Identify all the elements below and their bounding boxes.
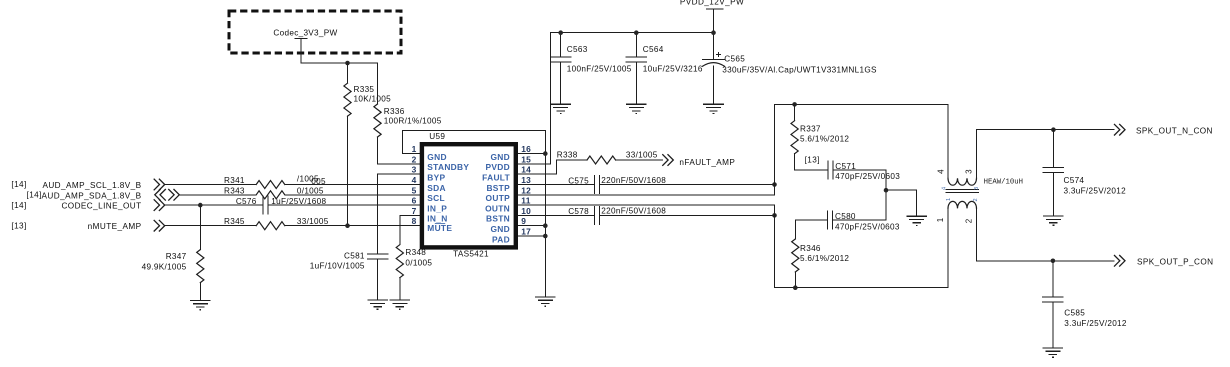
node pin17 GND junction [543,234,548,239]
node C564 [634,30,639,35]
svg-text:C580: C580 [835,212,856,221]
svg-text:C563: C563 [567,45,588,54]
node C574 tap [1051,127,1056,132]
port SPK_OUT_P_CON [1114,255,1213,267]
wire pin9 stub [518,225,545,227]
svg-text:9: 9 [521,216,526,226]
svg-text:330uF/35V/Al.Cap/UWT1V331MNL1G: 330uF/35V/Al.Cap/UWT1V331MNL1GS [722,65,877,74]
capacitor C576 [236,196,327,214]
wire SPK_OUT_P line [977,260,1115,262]
svg-text:15: 15 [521,154,531,164]
capacitor C575 [568,176,666,194]
resistor R343 [224,187,324,199]
svg-text:GND: GND [490,152,510,162]
node C585 tap [1051,259,1056,264]
node R346 bottom [793,285,798,290]
svg-text:R337: R337 [800,125,821,134]
svg-text:STANDBY: STANDBY [427,162,469,172]
svg-text:12: 12 [521,185,531,195]
svg-text:11: 11 [521,196,530,206]
svg-text:R336: R336 [384,107,405,116]
svg-text:PVDD: PVDD [486,162,510,172]
resistor R346 [792,220,850,288]
wire to snubber ground [886,190,917,216]
node R335 pull-up to nMUTE [345,223,350,228]
svg-text:R347: R347 [166,252,187,261]
wire IN_N to R348 [400,215,420,299]
ground C564 [626,104,647,113]
svg-text:HEAW/10uH: HEAW/10uH [984,179,1023,187]
svg-text:49.9K/1005: 49.9K/1005 [142,262,187,271]
wire SPK_OUT_N line [977,129,1115,131]
svg-text:R346: R346 [800,244,821,253]
svg-text:1uF/25V/1608: 1uF/25V/1608 [271,197,326,206]
U59 left pin names [427,152,469,233]
port nMUTE_AMP [11,220,164,232]
port nFAULT_AMP [662,154,735,167]
svg-text:C575: C575 [568,177,589,186]
svg-text:C564: C564 [643,45,664,54]
svg-text:8: 8 [412,216,417,226]
wire row nMUTE [165,225,420,227]
svg-text:SDA: SDA [427,183,446,193]
wire pin17 stub [518,235,545,237]
resistor R338 [557,150,658,164]
ground R348 [390,300,411,309]
node pin9 GND junction [543,223,548,228]
svg-text:4: 4 [941,187,947,190]
svg-text:3.3uF/25V/2012: 3.3uF/25V/2012 [1064,186,1127,195]
capacitor C563 [551,33,632,104]
svg-text:6: 6 [412,196,417,206]
svg-text:7: 7 [412,206,417,216]
node BSTP junction [772,182,777,187]
node C563 [558,30,563,35]
svg-text:2: 2 [973,198,979,201]
svg-text:100nF/25V/1005: 100nF/25V/1005 [567,65,632,74]
svg-text:13: 13 [521,175,531,185]
ground U59 GND [535,297,556,306]
svg-text:nFAULT_AMP: nFAULT_AMP [679,158,735,167]
svg-text:3: 3 [974,187,980,190]
svg-text:17: 17 [521,227,531,237]
svg-text:Codec_3V3_PW: Codec_3V3_PW [273,28,337,37]
svg-text:C581: C581 [344,251,365,260]
capacitor C585 [1043,261,1127,348]
power flag PVDD_12V_PW [680,0,744,59]
resistor R348 [396,245,432,278]
ground snubber [906,216,927,225]
port AUD_AMP_SCL_1.8V_B [11,179,164,191]
port AUD_AMP_SDA_1.8V_B [27,189,180,201]
node pin16 GND junction [543,151,548,156]
svg-text:1: 1 [946,198,952,201]
svg-text:5: 5 [412,185,417,195]
wire snubber bottom rail [775,287,949,289]
svg-text:2: 2 [412,154,417,164]
svg-text:C576: C576 [236,197,257,206]
svg-text:R343: R343 [224,187,245,196]
svg-text:5.6/1%/2012: 5.6/1%/2012 [800,135,849,144]
svg-text:10K/1005: 10K/1005 [354,95,392,104]
port CODEC_LINE_OUT [11,199,164,211]
svg-text:16: 16 [521,144,531,154]
svg-text:220nF/50V/1608: 220nF/50V/1608 [601,206,666,215]
svg-text:C571: C571 [835,162,856,171]
ground C563 [550,104,571,113]
svg-text:470pF/25V/0603: 470pF/25V/0603 [835,222,900,231]
wire BSTN row [518,214,775,216]
node R347 tap [198,203,203,208]
resistor R337 [791,104,849,169]
svg-text:IN_P: IN_P [427,203,447,213]
svg-text:3: 3 [964,169,973,174]
wire row LINE_OUT [165,204,420,206]
svg-text:C574: C574 [1064,176,1085,185]
node junction R335 top [345,61,350,66]
svg-text:GND: GND [427,152,447,162]
svg-text:1: 1 [936,217,945,222]
resistor R345 [224,217,329,230]
svg-text:0/1005: 0/1005 [405,259,432,268]
wire OUTP row [518,194,775,196]
node BSTN junction [772,213,777,218]
ground C581 [367,300,388,309]
node R337 top [792,102,797,107]
wire FAULT to R338 [518,160,662,174]
svg-text:4: 4 [412,175,417,185]
svg-text:TAS5421: TAS5421 [453,250,489,259]
svg-text:470pF/25V/0603: 470pF/25V/0603 [835,172,900,181]
svg-text:BSTN: BSTN [486,214,510,224]
svg-text:[14]: [14] [11,201,26,210]
U59 right pin numbers [521,144,531,236]
svg-text:BYP: BYP [427,173,445,183]
capacitor C574 [1043,130,1126,216]
wire GND vertical net [544,130,546,296]
svg-text:3.3uF/25V/2012: 3.3uF/25V/2012 [1064,319,1127,328]
svg-text:AUD_AMP_SCL_1.8V_B: AUD_AMP_SCL_1.8V_B [42,181,141,190]
wire BYP to C581 [378,174,420,299]
svg-text:33/1005: 33/1005 [626,150,658,159]
node snubber ground tee [884,188,889,193]
svg-text:100R/1%/1005: 100R/1%/1005 [384,117,442,126]
resistor R341 [224,175,326,189]
resistor R335 [344,63,391,226]
svg-text:OUTN: OUTN [485,203,510,213]
svg-text:OUTP: OUTP [486,193,511,203]
wire OUTN row [518,204,775,206]
inductor L common-mode choke HEAW/10uH [936,104,1023,287]
svg-text:[14]: [14] [11,180,26,189]
resistor R336 [374,63,442,164]
ground C565 [703,104,724,113]
svg-text:10: 10 [521,206,531,216]
wire 3V3 rail [301,62,378,64]
node C565 [711,30,716,35]
svg-text:2: 2 [964,218,973,223]
resistor R347 [142,205,204,300]
capacitor C580 [795,211,900,231]
svg-text:nMUTE_AMP: nMUTE_AMP [88,222,142,231]
ground R347 [190,301,211,310]
svg-text:U59: U59 [429,132,445,141]
op-amp U59 TAS5421 body [422,132,516,259]
svg-text:220nF/50V/1608: 220nF/50V/1608 [601,176,666,185]
svg-text:[14]: [14] [27,191,42,200]
svg-text:C578: C578 [568,207,589,216]
wire BSTP row [518,184,775,186]
svg-text:10uF/25V/3216: 10uF/25V/3216 [643,65,703,74]
svg-text:0/1005: 0/1005 [297,187,324,196]
svg-text:BSTP: BSTP [486,183,510,193]
capacitor C581 [310,251,388,270]
svg-text:AUD_AMP_SDA_1.8V_B: AUD_AMP_SDA_1.8V_B [42,191,142,200]
ground C574 [1043,216,1064,225]
capacitor C578 [568,206,666,224]
wire snubber top rail [775,103,949,105]
svg-text:R335: R335 [354,85,375,94]
port SPK_OUT_N_CON [1114,124,1213,136]
svg-text:R341: R341 [224,176,245,185]
svg-text:C585: C585 [1064,309,1085,318]
power flag box Codec_3V3_PW (dashed) [229,11,401,53]
wire pin1 GND loop [403,130,546,153]
capacitor C564 [626,33,703,104]
svg-text:SCL: SCL [427,193,445,203]
wire snubber left vertical [774,104,776,287]
svg-text:14: 14 [521,165,531,175]
svg-text:CODEC_LINE_OUT: CODEC_LINE_OUT [61,202,141,211]
svg-text:4: 4 [937,169,946,174]
svg-text:MUTE: MUTE [427,223,452,233]
svg-text:[13]: [13] [805,156,820,165]
svg-text:1: 1 [412,144,417,154]
svg-text:R348: R348 [405,248,426,257]
svg-text:PAD: PAD [492,234,510,244]
wire pin16 stub [518,153,545,155]
wire PVDD riser [518,33,714,164]
U59 right pin names [482,152,510,244]
svg-text:C565: C565 [724,55,745,64]
svg-text:PVDD_12V_PW: PVDD_12V_PW [680,0,744,7]
svg-text:R338: R338 [557,151,578,160]
svg-text:5.6/1%/2012: 5.6/1%/2012 [800,254,849,263]
svg-text:GND: GND [490,224,510,234]
svg-text:1uF/10V/1005: 1uF/10V/1005 [310,262,365,271]
U59 left pin numbers [412,144,417,226]
wire row SCL [165,184,420,186]
svg-text:[13]: [13] [11,221,26,230]
wire row SDA [180,194,420,196]
ground C585 [1043,348,1064,357]
svg-text:33/1005: 33/1005 [297,217,329,226]
svg-text:SPK_OUT_N_CON: SPK_OUT_N_CON [1136,126,1213,135]
capacitor C571 [795,161,901,181]
svg-text:005: 005 [311,177,326,186]
svg-text:3: 3 [412,165,417,175]
svg-text:R345: R345 [224,217,245,226]
wire snubber mid vertical [885,170,887,220]
capacitor C565 (polarized) [703,53,878,104]
power bar symbol Codec_3V3_PW [295,38,307,40]
svg-text:FAULT: FAULT [482,173,510,183]
svg-text:SPK_OUT_P_CON: SPK_OUT_P_CON [1137,258,1213,267]
